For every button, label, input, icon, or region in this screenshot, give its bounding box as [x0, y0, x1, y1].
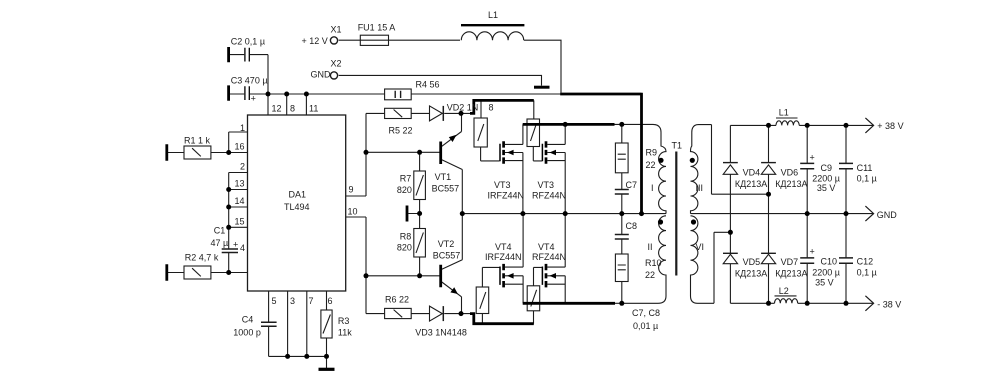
- svg-text:VD7: VD7: [781, 257, 799, 267]
- svg-text:C9: C9: [821, 163, 833, 173]
- svg-text:VT4: VT4: [538, 242, 555, 252]
- svg-text:5: 5: [272, 296, 277, 306]
- svg-text:C3 470 µ: C3 470 µ: [231, 76, 268, 86]
- svg-text:820: 820: [397, 243, 412, 253]
- svg-text:+: +: [810, 153, 815, 163]
- svg-text:7: 7: [309, 296, 314, 306]
- svg-text:0,01 µ: 0,01 µ: [633, 321, 658, 331]
- svg-text:L1: L1: [488, 10, 498, 20]
- svg-text:8: 8: [290, 104, 295, 114]
- svg-text:C7, C8: C7, C8: [632, 308, 660, 318]
- svg-text:I: I: [651, 183, 654, 193]
- svg-text:C10: C10: [821, 257, 838, 267]
- svg-text:L2: L2: [779, 286, 789, 296]
- svg-text:IRFZ44N: IRFZ44N: [488, 191, 525, 201]
- svg-text:+ 12 V: + 12 V: [302, 36, 328, 46]
- svg-text:VD6: VD6: [781, 168, 799, 178]
- svg-text:RFZ44N: RFZ44N: [532, 252, 566, 262]
- svg-text:BC557: BC557: [432, 184, 460, 194]
- svg-text:35 V: 35 V: [815, 278, 834, 288]
- svg-text:16: 16: [235, 142, 245, 152]
- svg-text:8: 8: [489, 103, 494, 113]
- svg-text:+ 38 V: + 38 V: [877, 121, 903, 131]
- svg-text:R2 4,7 k: R2 4,7 k: [185, 253, 219, 263]
- svg-text:- 38 V: - 38 V: [877, 300, 901, 310]
- svg-text:2: 2: [240, 162, 245, 172]
- svg-text:0,1 µ: 0,1 µ: [857, 267, 877, 277]
- svg-text:6: 6: [328, 296, 333, 306]
- svg-text:R7: R7: [400, 174, 412, 184]
- svg-text:GND: GND: [311, 70, 332, 80]
- svg-text:22: 22: [646, 160, 656, 170]
- svg-text:+: +: [251, 94, 256, 104]
- svg-text:R5 22: R5 22: [389, 126, 413, 136]
- svg-text:14: 14: [235, 196, 245, 206]
- svg-text:RFZ44N: RFZ44N: [532, 191, 566, 201]
- svg-text:C1: C1: [214, 226, 226, 236]
- svg-text:III: III: [696, 183, 704, 193]
- svg-text:3: 3: [290, 296, 295, 306]
- svg-text:II: II: [648, 242, 653, 252]
- svg-text:C8: C8: [626, 221, 638, 231]
- svg-text:BC557: BC557: [433, 251, 461, 261]
- svg-text:VT1: VT1: [435, 172, 452, 182]
- svg-text:VD2 1N: VD2 1N: [447, 103, 479, 113]
- svg-text:VT2: VT2: [438, 239, 455, 249]
- svg-text:R10: R10: [645, 258, 662, 268]
- svg-text:КД213А: КД213А: [775, 269, 807, 279]
- svg-text:X2: X2: [331, 59, 342, 69]
- svg-text:C11: C11: [857, 163, 873, 173]
- svg-text:КД213А: КД213А: [775, 179, 807, 189]
- svg-text:+: +: [233, 239, 238, 249]
- svg-text:47 µ: 47 µ: [211, 238, 229, 248]
- svg-text:R1 1 k: R1 1 k: [184, 135, 211, 145]
- svg-text:R4 56: R4 56: [416, 80, 440, 90]
- svg-text:2200 µ: 2200 µ: [812, 174, 840, 184]
- svg-text:12: 12: [272, 104, 282, 114]
- svg-text:VD3 1N4148: VD3 1N4148: [415, 328, 467, 338]
- svg-text:L1: L1: [779, 107, 789, 117]
- svg-text:0,1 µ: 0,1 µ: [857, 174, 877, 184]
- svg-text:T1: T1: [672, 141, 683, 151]
- svg-text:15: 15: [235, 216, 245, 226]
- svg-text:R8: R8: [400, 232, 412, 242]
- svg-text:IRFZ44N: IRFZ44N: [485, 252, 522, 262]
- svg-text:VD5: VD5: [743, 257, 761, 267]
- svg-text:10: 10: [348, 207, 358, 217]
- svg-text:КД213А: КД213А: [735, 269, 767, 279]
- svg-text:C4: C4: [242, 315, 254, 325]
- svg-text:9: 9: [349, 185, 354, 195]
- svg-text:FU1 15 A: FU1 15 A: [358, 23, 396, 33]
- svg-text:22: 22: [645, 270, 655, 280]
- svg-text:VT4: VT4: [495, 242, 512, 252]
- svg-text:C2 0,1 µ: C2 0,1 µ: [231, 37, 265, 47]
- svg-text:820: 820: [397, 185, 412, 195]
- svg-text:13: 13: [235, 179, 245, 189]
- svg-text:VD4: VD4: [743, 168, 761, 178]
- svg-text:DA1: DA1: [289, 189, 307, 199]
- svg-text:C7: C7: [626, 180, 638, 190]
- svg-text:35 V: 35 V: [817, 183, 836, 193]
- svg-text:VT3: VT3: [538, 180, 555, 190]
- svg-text:1000 p: 1000 p: [233, 328, 261, 338]
- svg-text:R3: R3: [338, 316, 350, 326]
- svg-text:X1: X1: [331, 24, 342, 34]
- svg-text:VI: VI: [696, 242, 705, 252]
- svg-text:11k: 11k: [338, 328, 352, 338]
- svg-text:C12: C12: [857, 257, 874, 267]
- svg-text:11: 11: [309, 104, 318, 114]
- svg-text:2200 µ: 2200 µ: [812, 267, 840, 277]
- svg-text:1: 1: [240, 123, 245, 133]
- svg-text:R6 22: R6 22: [385, 295, 409, 305]
- svg-text:+: +: [810, 247, 815, 257]
- svg-text:4: 4: [240, 243, 245, 253]
- svg-text:GND: GND: [877, 210, 898, 220]
- svg-text:TL494: TL494: [284, 202, 310, 212]
- svg-text:R9: R9: [646, 148, 658, 158]
- svg-text:VT3: VT3: [494, 180, 511, 190]
- svg-text:КД213А: КД213А: [735, 179, 767, 189]
